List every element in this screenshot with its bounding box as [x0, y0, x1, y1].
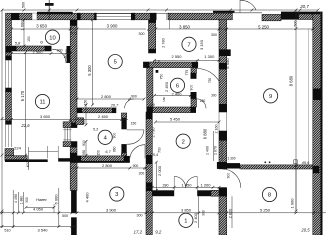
svg-text:7: 7 — [187, 42, 190, 48]
svg-text:1 600: 1 600 — [20, 20, 25, 31]
svg-text:300: 300 — [211, 94, 217, 98]
svg-text:Навес: Навес — [36, 198, 47, 202]
svg-text:4 400: 4 400 — [85, 192, 90, 203]
svg-text:1: 1 — [184, 218, 187, 224]
svg-text:500: 500 — [62, 214, 68, 218]
svg-text:20,5: 20,5 — [300, 228, 310, 233]
svg-text:5 450: 5 450 — [170, 116, 181, 121]
svg-text:300: 300 — [139, 32, 145, 36]
svg-text:6 170: 6 170 — [20, 90, 25, 101]
svg-text:500: 500 — [71, 32, 77, 36]
svg-text:3 650: 3 650 — [36, 23, 47, 28]
svg-text:5,3: 5,3 — [93, 128, 98, 132]
svg-text:2 780: 2 780 — [161, 38, 165, 48]
svg-text:22,6: 22,6 — [20, 123, 30, 128]
svg-text:3: 3 — [115, 192, 118, 198]
svg-text:900: 900 — [25, 197, 29, 203]
svg-text:8: 8 — [268, 193, 271, 199]
svg-text:17,2: 17,2 — [134, 230, 143, 235]
svg-text:3 900: 3 900 — [106, 207, 117, 212]
svg-text:2 820: 2 820 — [228, 209, 232, 219]
svg-text:500: 500 — [294, 21, 298, 27]
svg-text:3 540: 3 540 — [37, 228, 48, 233]
svg-text:2 160: 2 160 — [214, 125, 218, 134]
svg-text:9: 9 — [269, 94, 272, 100]
svg-text:1 400: 1 400 — [206, 146, 210, 155]
svg-text:5,8: 5,8 — [15, 40, 21, 45]
svg-text:3 900: 3 900 — [107, 23, 118, 28]
svg-text:4 490: 4 490 — [14, 194, 18, 203]
svg-text:5 450: 5 450 — [225, 58, 230, 69]
svg-text:900: 900 — [82, 119, 86, 125]
svg-text:2 730: 2 730 — [150, 127, 155, 138]
svg-text:2 000: 2 000 — [157, 165, 162, 176]
svg-text:730: 730 — [157, 147, 161, 153]
svg-text:2 400: 2 400 — [193, 212, 198, 223]
svg-text:6: 6 — [176, 83, 179, 89]
svg-text:750: 750 — [160, 74, 164, 80]
svg-text:1 300: 1 300 — [228, 157, 236, 161]
svg-text:900: 900 — [131, 94, 137, 98]
svg-text:860: 860 — [113, 146, 117, 152]
svg-text:1 450: 1 450 — [181, 182, 192, 187]
svg-text:150: 150 — [162, 96, 166, 101]
svg-text:2 500: 2 500 — [32, 50, 43, 55]
svg-text:1 200: 1 200 — [200, 182, 211, 187]
svg-text:2 550: 2 550 — [171, 54, 182, 59]
svg-text:6 000: 6 000 — [54, 194, 59, 205]
svg-text:6 880: 6 880 — [203, 128, 208, 139]
svg-text:1 670: 1 670 — [214, 146, 218, 155]
svg-text:1 880: 1 880 — [19, 196, 23, 205]
svg-text:400: 400 — [26, 162, 30, 168]
svg-text:8 680: 8 680 — [288, 75, 293, 86]
svg-text:300: 300 — [137, 213, 143, 217]
svg-text:20,7: 20,7 — [110, 103, 119, 107]
svg-text:5,9: 5,9 — [149, 103, 155, 107]
svg-text:3 850: 3 850 — [179, 25, 190, 30]
svg-text:900: 900 — [201, 210, 205, 216]
svg-text:3 650: 3 650 — [40, 114, 51, 119]
svg-text:510: 510 — [4, 229, 10, 233]
svg-text:900: 900 — [82, 140, 86, 146]
svg-text:900: 900 — [113, 133, 117, 139]
svg-text:150: 150 — [27, 36, 31, 42]
svg-text:1 300: 1 300 — [204, 54, 215, 59]
svg-text:150: 150 — [96, 150, 100, 156]
svg-text:900: 900 — [57, 48, 63, 52]
svg-text:1 900: 1 900 — [290, 198, 295, 209]
svg-text:2 450: 2 450 — [98, 114, 109, 119]
svg-text:25,4: 25,4 — [150, 153, 158, 157]
svg-text:900: 900 — [226, 173, 230, 179]
svg-text:2 800: 2 800 — [101, 94, 112, 99]
svg-text:20,7: 20,7 — [299, 4, 309, 9]
svg-text:900: 900 — [189, 85, 193, 91]
svg-text:150: 150 — [131, 122, 137, 126]
svg-text:500: 500 — [22, 2, 26, 8]
svg-text:280: 280 — [163, 183, 169, 187]
svg-text:11: 11 — [39, 100, 45, 106]
svg-text:5 300: 5 300 — [87, 65, 92, 76]
svg-text:11,0: 11,0 — [153, 59, 161, 63]
svg-text:950: 950 — [82, 150, 86, 156]
svg-text:45,6: 45,6 — [302, 160, 311, 165]
svg-text:4 050: 4 050 — [33, 207, 44, 212]
svg-text:6,7: 6,7 — [105, 150, 111, 154]
svg-text:2 800: 2 800 — [102, 163, 113, 168]
svg-text:5 250: 5 250 — [260, 207, 271, 212]
svg-text:200: 200 — [139, 171, 145, 175]
svg-text:5: 5 — [114, 60, 117, 66]
svg-text:2: 2 — [182, 139, 185, 145]
svg-text:750: 750 — [208, 78, 212, 84]
svg-text:5 250: 5 250 — [258, 25, 269, 30]
svg-text:26: 26 — [64, 55, 68, 59]
svg-text:775: 775 — [185, 70, 189, 76]
svg-text:2 450: 2 450 — [164, 81, 169, 92]
svg-text:300: 300 — [211, 33, 217, 37]
svg-text:150: 150 — [200, 99, 206, 103]
svg-text:3 850: 3 850 — [181, 207, 192, 212]
svg-text:9,2: 9,2 — [155, 230, 162, 235]
svg-text:900: 900 — [133, 164, 139, 168]
svg-text:10: 10 — [49, 35, 55, 41]
svg-text:3 150: 3 150 — [199, 39, 204, 50]
svg-text:224: 224 — [14, 146, 21, 151]
